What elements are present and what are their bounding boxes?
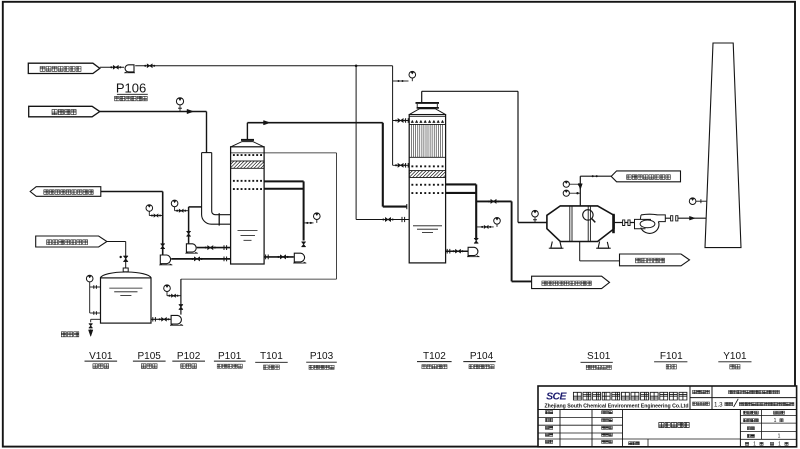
flag 再生烟气 [29, 106, 100, 117]
wire P102 riser [162, 192, 164, 256]
valve P105 suction [162, 318, 167, 321]
flag 至回用系统 [620, 254, 690, 266]
duct inlet elbow [202, 152, 212, 154]
vessel S101 end plate [612, 214, 615, 233]
tower T102 hatch band [409, 171, 445, 178]
pump P101 [186, 244, 196, 252]
flag 至废水过滤回用系统 (middle) [532, 276, 610, 288]
stack Y101 [705, 43, 741, 248]
svg-text:1: 1 [753, 441, 756, 447]
tower T101 top packing support line [231, 152, 265, 154]
wire steam line [580, 175, 611, 177]
wire V101 drain [91, 318, 101, 320]
valve waste line [491, 200, 496, 204]
instrument on flue gas line [176, 98, 183, 105]
svg-text:1: 1 [778, 441, 781, 447]
valve flush stub lower [393, 164, 410, 166]
coupling on steam line [592, 175, 594, 177]
duct flange tick [218, 213, 220, 225]
wire T101 spray headers [264, 180, 304, 182]
tower T101 spray dot row 1 [233, 180, 235, 182]
text 至地沟 [61, 332, 78, 337]
tank V101 dome [101, 272, 152, 278]
right table texts [743, 411, 758, 414]
valve P101 suction [208, 246, 213, 250]
valve P101 riser [187, 232, 190, 237]
tower T102 packing stripes [411, 124, 413, 157]
vessel S101 internals [569, 206, 571, 241]
instrument steam tap 2 [563, 190, 569, 196]
arrow steam down [578, 184, 582, 190]
wire P103 suction [264, 256, 294, 258]
wire T102 gas outlet [421, 91, 423, 102]
vessel S101 shell [547, 206, 614, 242]
svg-text:T101: T101 [260, 351, 283, 362]
flange V101 outlet [152, 317, 154, 321]
instrument inside S101 [583, 210, 593, 220]
svg-text:P103: P103 [310, 351, 334, 362]
valve P103 discharge [302, 242, 305, 247]
instrument near P103 [314, 213, 321, 220]
pump P104 [468, 247, 478, 255]
tower T102 demister tri row [411, 120, 414, 122]
title block grid [538, 386, 797, 447]
wire waste tee [476, 200, 511, 202]
wire water branch to T102 bottom [355, 66, 357, 220]
signature rows [545, 411, 552, 414]
svg-text:SCE: SCE [546, 391, 567, 403]
svg-text:P102: P102 [177, 351, 201, 362]
pump P103 [294, 253, 304, 262]
level gauge V101 [86, 275, 93, 282]
pump P106 [125, 65, 134, 72]
wire F3 waste line [101, 191, 163, 193]
arrow on T101 outlet [264, 121, 271, 125]
tank V101 body [101, 278, 152, 323]
valve V101 inlet [124, 256, 128, 261]
tank V101 nozzle [123, 268, 128, 272]
tower T102 liquid level [413, 225, 442, 227]
valve on P106 suction [113, 66, 118, 69]
tower T101 spray dot row 2 [233, 188, 235, 190]
wire fan to stack [665, 217, 670, 219]
valve P102 riser [161, 244, 164, 249]
drawing title 工艺流程图 [659, 422, 689, 427]
wire primary water line [100, 66, 124, 68]
pump P105 [171, 315, 181, 324]
wire P101 spray riser [188, 207, 190, 244]
instrument before S101 [532, 210, 539, 217]
cell 底图号 [629, 442, 640, 445]
valve on P106 discharge [147, 64, 152, 67]
svg-text:P106: P106 [116, 81, 146, 96]
flag 一次水来自厂区 [28, 63, 100, 73]
instrument steam tap 1 [563, 181, 569, 187]
value 工程名称 [729, 390, 780, 393]
arrow V101 drain to trench [90, 329, 92, 332]
flange P102 tower line [223, 257, 225, 262]
svg-text:P104: P104 [470, 351, 494, 362]
flange P103 suction [265, 255, 267, 260]
flange P101 suction [223, 245, 225, 250]
instrument near P105 [164, 285, 171, 292]
wire P104 suction [446, 250, 468, 252]
flange at T102 feed [401, 217, 403, 222]
tower T101 body [231, 147, 265, 264]
flange at T102 gas inlet [406, 204, 408, 209]
pump P102 [160, 255, 170, 264]
cell 工程名称 [693, 390, 710, 394]
flange S101 outlet [623, 220, 631, 226]
tower T102 body [409, 115, 445, 263]
valve P102 tower line [194, 257, 199, 261]
wire makeup loop [264, 152, 336, 154]
wire T101 gas outlet [246, 123, 248, 140]
valve P104 discharge [475, 239, 478, 244]
tower T102 packing frame [409, 123, 445, 125]
wire flue gas from flag [100, 111, 207, 113]
tower T102 spray dot row 1 [411, 184, 413, 186]
instrument tap on flush line [393, 80, 409, 82]
svg-text:1: 1 [774, 418, 777, 424]
tank V101 liquid level [109, 287, 142, 289]
tower T102 shoulder [416, 102, 440, 104]
valve P104 suction [456, 250, 461, 253]
svg-text:1: 1 [778, 434, 781, 440]
arrow into stack [690, 216, 696, 220]
cell 设计项目 [693, 402, 710, 406]
tower T101 top head [241, 139, 254, 141]
tower T102 spray dot row 2 [411, 192, 413, 194]
svg-text:F101: F101 [660, 351, 683, 362]
instrument near P104 [494, 218, 501, 225]
flange P104 suction [446, 249, 448, 254]
fan F101 [635, 219, 652, 228]
instrument on stack [689, 198, 696, 205]
valve P103 suction [280, 255, 285, 259]
wire V101 inlet [107, 241, 126, 243]
wire demister flush drop [392, 66, 394, 166]
arrow on flue gas line [187, 109, 194, 113]
flange fan outlet [671, 216, 678, 221]
junction node water branch [355, 65, 358, 68]
wire S101 to fan [614, 222, 635, 224]
tower T101 liquid level [238, 230, 258, 232]
svg-text:Y101: Y101 [723, 351, 747, 362]
flag 厂区过滤回用水 [36, 236, 107, 247]
instrument at P102 [146, 205, 153, 212]
tower T101 packing hatch band [231, 161, 265, 168]
svg-text:P105: P105 [138, 351, 162, 362]
svg-text:V101: V101 [89, 351, 113, 362]
valve on T102 feed [385, 218, 390, 222]
valve P105 discharge [179, 305, 182, 310]
svg-text:P101: P101 [218, 351, 242, 362]
svg-text:1.3: 1.3 [714, 402, 723, 409]
svg-text:T102: T102 [423, 351, 446, 362]
tower T101 demister dot row [233, 154, 235, 156]
wire P101 suction [197, 247, 231, 249]
wire T102 spray headers [446, 183, 477, 185]
svg-text:S101: S101 [587, 351, 611, 362]
wire P102 tower line [171, 258, 230, 260]
company name 浙江南化环保工程有限公司 [573, 392, 687, 400]
valve V101 drain [89, 324, 92, 328]
svg-text:Zhejiang South Chemical Enviro: Zhejiang South Chemical Environment Engi… [545, 404, 690, 410]
wire P105 suction [151, 318, 171, 320]
instrument at P101 [171, 200, 178, 207]
valve flush stub upper [393, 120, 410, 122]
tower T102 dot row below packing [411, 165, 413, 167]
flag 低压蒸汽来自厂区 [611, 171, 680, 182]
wire S101 drain [579, 242, 581, 261]
vessel S101 legs [551, 242, 562, 249]
flag 至废水过滤回用系统 (left) [30, 187, 101, 197]
